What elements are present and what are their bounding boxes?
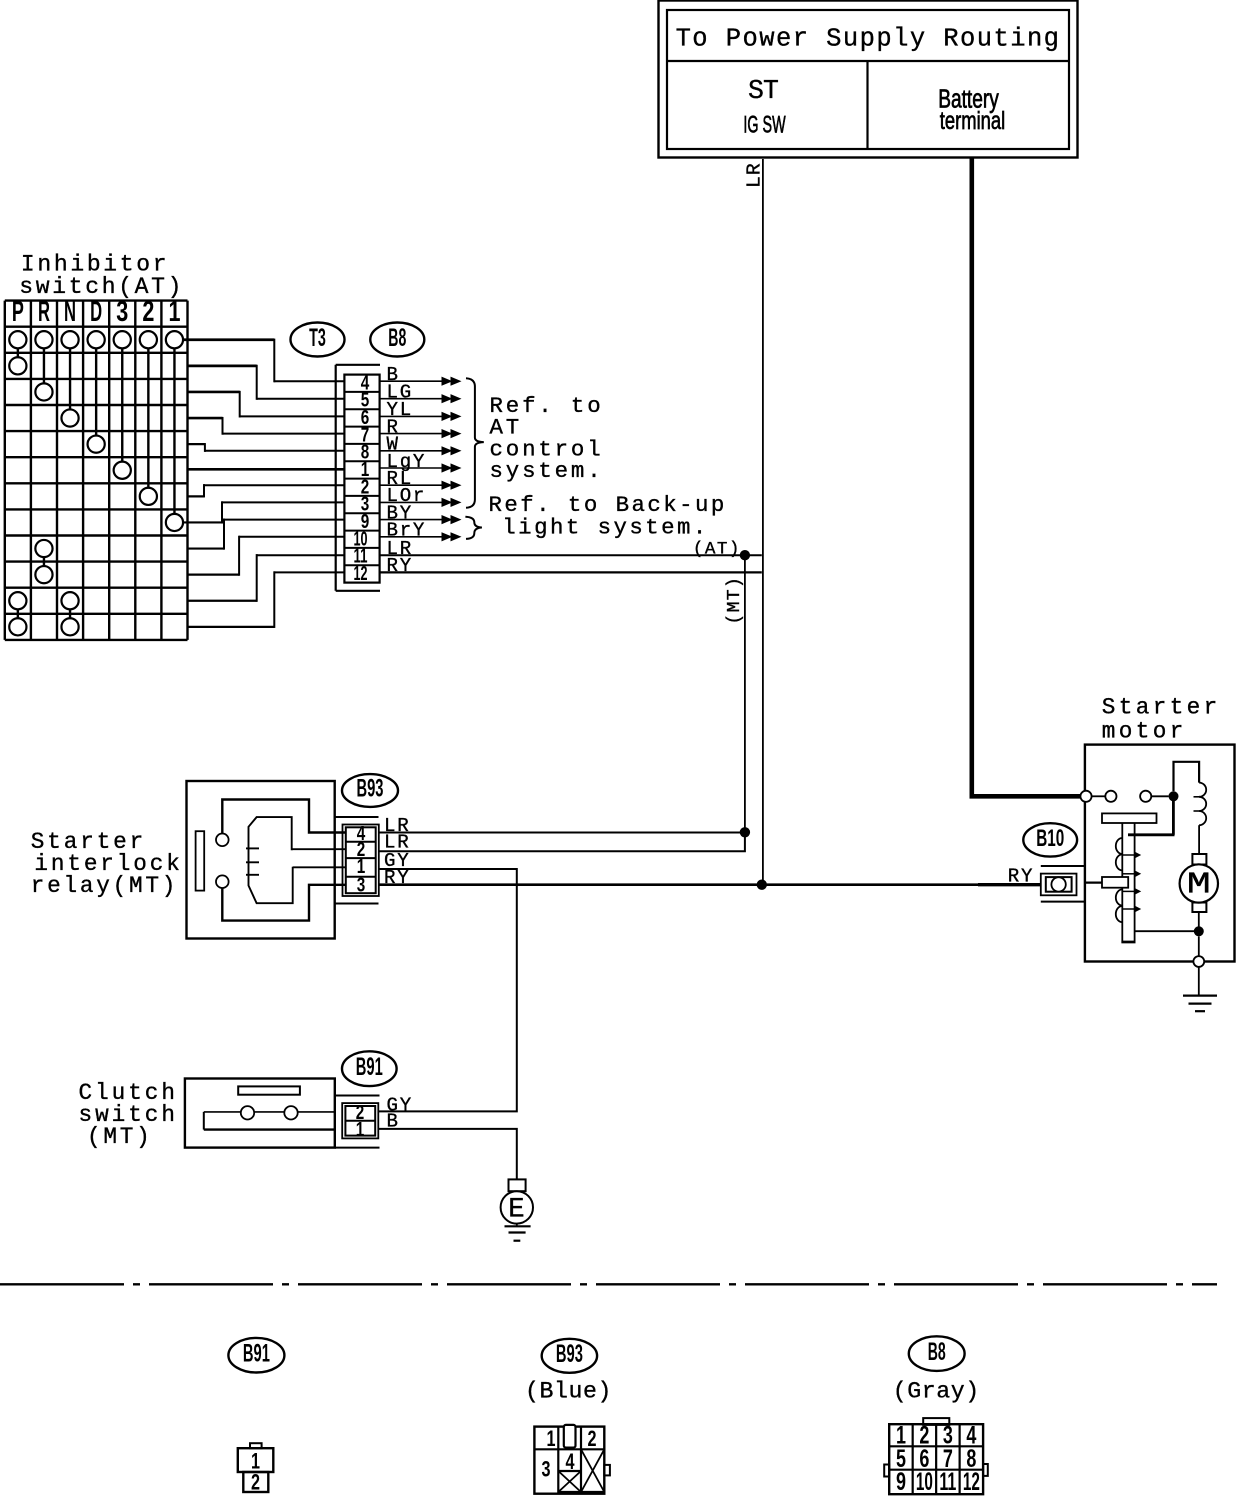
svg-text:11: 11	[939, 1469, 956, 1496]
svg-text:D: D	[90, 295, 102, 327]
svg-text:B91: B91	[356, 1054, 383, 1081]
svg-text:terminal: terminal	[940, 107, 1005, 135]
svg-text:12: 12	[963, 1469, 980, 1496]
svg-text:(Blue): (Blue)	[525, 1379, 612, 1405]
svg-text:12: 12	[354, 563, 368, 585]
svg-text:B: B	[387, 1111, 400, 1133]
svg-text:P: P	[12, 295, 24, 327]
svg-text:1: 1	[168, 295, 180, 327]
svg-text:(AT): (AT)	[693, 539, 741, 559]
svg-text:4: 4	[566, 1449, 575, 1474]
svg-text:T3: T3	[309, 325, 326, 352]
svg-text:B8: B8	[928, 1339, 946, 1366]
svg-text:1: 1	[356, 1119, 365, 1141]
svg-text:relay(MT): relay(MT)	[31, 873, 178, 899]
svg-text:3: 3	[542, 1457, 551, 1482]
svg-text:LR: LR	[744, 162, 766, 188]
svg-text:9: 9	[896, 1469, 906, 1496]
svg-text:switch(AT): switch(AT)	[19, 274, 184, 300]
svg-text:(MT): (MT)	[725, 576, 745, 624]
svg-text:3: 3	[357, 874, 366, 896]
svg-text:R: R	[38, 295, 50, 327]
svg-text:B93: B93	[556, 1341, 583, 1368]
svg-text:3: 3	[116, 295, 128, 327]
svg-text:E: E	[508, 1194, 525, 1225]
svg-text:system.: system.	[490, 458, 604, 484]
svg-text:10: 10	[916, 1469, 933, 1496]
svg-text:(Gray): (Gray)	[893, 1378, 980, 1404]
svg-text:B93: B93	[357, 776, 384, 803]
svg-text:ST: ST	[748, 76, 778, 106]
svg-text:B91: B91	[243, 1340, 270, 1367]
svg-text:M: M	[1187, 867, 1211, 902]
svg-text:2: 2	[588, 1426, 597, 1451]
svg-text:N: N	[64, 295, 76, 327]
svg-text:motor: motor	[1102, 719, 1187, 745]
svg-text:RY: RY	[384, 867, 410, 889]
svg-text:IG SW: IG SW	[743, 113, 786, 139]
svg-text:B10: B10	[1036, 825, 1064, 852]
svg-text:B8: B8	[388, 325, 406, 352]
svg-text:(MT): (MT)	[87, 1124, 153, 1150]
svg-text:2: 2	[142, 295, 154, 327]
svg-text:RY: RY	[387, 555, 413, 577]
svg-text:light system.: light system.	[502, 515, 709, 541]
svg-text:Starter: Starter	[1102, 695, 1221, 721]
svg-text:To Power Supply Routing: To Power Supply Routing	[676, 25, 1061, 54]
svg-text:1: 1	[547, 1426, 556, 1451]
svg-text:RY: RY	[1008, 865, 1034, 887]
svg-text:2: 2	[251, 1470, 260, 1495]
